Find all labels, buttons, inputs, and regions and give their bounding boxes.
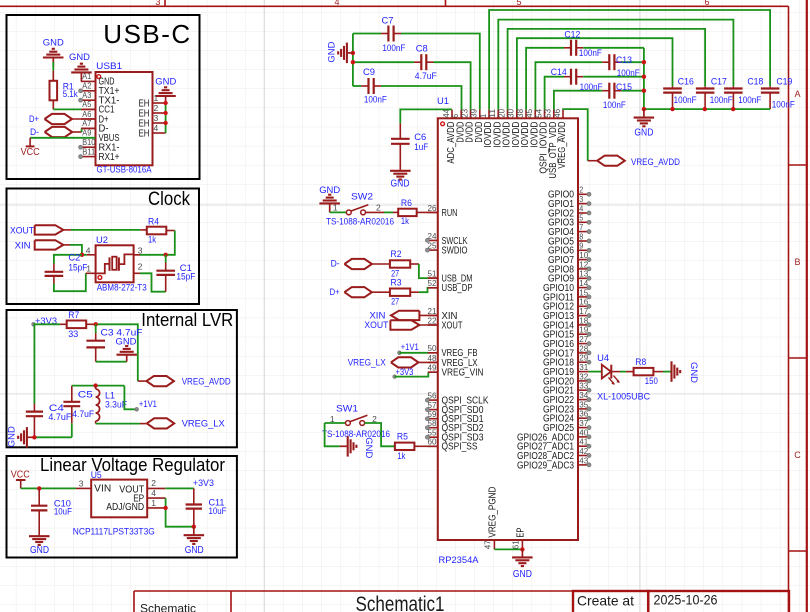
unconnected pin dot: [587, 192, 591, 196]
unconnected pin dot: [587, 463, 591, 467]
U1 pin 23 (DVDD) top: [470, 110, 472, 119]
unconnected pin dot: [587, 444, 591, 448]
wire +3V3 down to C4/GND rail: [33, 324, 35, 403]
svg-text:GND: GND: [327, 41, 338, 62]
svg-text:4.7uF: 4.7uF: [72, 409, 94, 420]
U1 pin 24 (SWCLK): [428, 239, 438, 241]
svg-text:4: 4: [154, 123, 159, 133]
USB1 pin 3 (EH): [153, 122, 166, 124]
U1 pin 37 (GPIO25): [578, 427, 589, 429]
svg-text:D+: D+: [29, 114, 39, 125]
svg-text:VREG_PGND: VREG_PGND: [488, 487, 499, 538]
unconnected pin dot: [587, 416, 591, 420]
U1 pin 12 (GPIO8): [578, 268, 589, 270]
ground GND (LVR rail): [27, 436, 35, 438]
svg-text:A: A: [794, 89, 800, 99]
power flag VCC: [29, 138, 31, 147]
svg-text:1: 1: [333, 203, 338, 213]
wire VCC to VIN: [21, 487, 76, 489]
svg-text:ABM8-272-T3: ABM8-272-T3: [97, 283, 147, 294]
unconnected pin dot: [587, 342, 591, 346]
svg-text:GND: GND: [155, 76, 176, 87]
unconnected pin dot: [587, 332, 591, 336]
U1 pin 19 (GPIO15): [578, 333, 589, 335]
svg-text:R2: R2: [391, 249, 402, 260]
svg-text:27: 27: [391, 297, 399, 308]
wire EH bus to GND: [165, 103, 167, 133]
svg-text:21: 21: [428, 306, 437, 316]
svg-text:VREG_LX: VREG_LX: [348, 357, 387, 368]
U1 pin 58 (QSPI_SD2): [428, 427, 438, 429]
U1 pin 8 (GPIO5): [578, 240, 589, 242]
regulator U5 NCP1117LPST33T3G: [91, 480, 147, 518]
U1 pin 2 (GPIO0): [578, 193, 589, 195]
U1 pin 47 (VREG_PGND) bottom: [493, 540, 495, 549]
svg-text:A5: A5: [82, 99, 91, 109]
U1 pin 50 (VREG_FB): [428, 352, 438, 354]
svg-text:51: 51: [428, 269, 437, 279]
U1 pin 11 (IOVDD) top: [497, 110, 499, 119]
unconnected pin dot: [587, 388, 591, 392]
U1 pin 32 (GPIO20): [578, 380, 589, 382]
svg-text:GND: GND: [7, 426, 18, 447]
inductor L1 3.3uF: [95, 386, 97, 389]
svg-text:1k: 1k: [148, 235, 156, 246]
svg-text:5.1k: 5.1k: [63, 89, 78, 100]
unconnected pin dot: [587, 454, 591, 458]
U1 pin 55 (QSPI_SD3): [428, 436, 438, 438]
USB1 pin A1 (GND): [81, 80, 96, 82]
capacitor C5 4.7uF: [71, 386, 73, 402]
wire R8 to GND: [653, 371, 663, 373]
wire VREG_PGND/EP to GND: [494, 548, 522, 550]
svg-text:100nF: 100nF: [364, 95, 387, 106]
unconnected pin dot: [587, 398, 591, 402]
U5 pin1 ADJ/GND stub: [147, 507, 165, 509]
USB1 pin A3 (TX1-): [81, 99, 96, 101]
U1 pin 7 (GPIO4): [578, 231, 589, 233]
svg-text:1: 1: [151, 498, 156, 508]
svg-text:EH: EH: [139, 128, 150, 139]
unconnected pin dot: [587, 248, 591, 252]
unconnected pin dot: [425, 238, 429, 242]
U1 pin 61 (EP) bottom: [521, 540, 523, 549]
svg-text:2: 2: [376, 203, 381, 213]
net flag VREG_AVDD: [138, 380, 147, 382]
U1 pin 56 (QSPI_SCLK): [428, 399, 438, 401]
svg-text:C17: C17: [711, 77, 727, 88]
svg-text:C19: C19: [776, 77, 792, 88]
svg-text:Clock: Clock: [148, 189, 190, 210]
unconnected pin dot: [587, 267, 591, 271]
wire XOUT to R4: [63, 229, 71, 231]
title block: [134, 590, 789, 592]
svg-text:100nF: 100nF: [579, 48, 602, 59]
svg-text:15pF: 15pF: [68, 262, 87, 273]
LED U4 XL-1005UBC: [602, 365, 611, 379]
svg-text:VCC: VCC: [11, 470, 30, 481]
svg-text:3: 3: [79, 479, 84, 489]
U1 pin 1 (IOVDD) top: [488, 110, 490, 119]
U1 pin 22 (XOUT): [428, 324, 438, 326]
svg-text:D-: D-: [331, 259, 340, 270]
U1 pin 46 (VREG_AVDD) top: [562, 110, 564, 119]
unconnected pin dot: [425, 417, 429, 421]
svg-text:XOUT: XOUT: [10, 225, 34, 236]
svg-text:VIN: VIN: [94, 483, 111, 494]
wire IOVDD pin to C19: [489, 10, 770, 110]
capacitor C13 100nF: [535, 62, 602, 109]
svg-text:R4: R4: [148, 216, 159, 227]
U1 pin 33 (GPIO21): [578, 389, 589, 391]
section box Internal LVR: [7, 310, 237, 447]
U1 pin 3 (GPIO1): [578, 203, 589, 205]
U1 pin 44 (ADC_AVDD) top: [451, 110, 453, 119]
USB1 pin A9 (VBUS): [81, 137, 96, 139]
U1 pin 35 (GPIO23): [578, 408, 589, 410]
ground GND (EP): [521, 549, 523, 557]
svg-text:GND: GND: [363, 437, 374, 458]
svg-text:C9: C9: [363, 67, 375, 78]
svg-text:R7: R7: [68, 310, 79, 321]
svg-text:3: 3: [155, 0, 160, 7]
unconnected pin dot: [79, 145, 83, 149]
ground GND (SW1): [340, 445, 348, 447]
wire SW1 pin2 to R5 rail: [365, 423, 395, 446]
svg-text:100nF: 100nF: [710, 95, 733, 106]
U1 pin 60 (QSPI_SS): [428, 445, 438, 447]
svg-text:1k: 1k: [397, 451, 405, 462]
unconnected pin dot: [587, 379, 591, 383]
U1 pin 17 (GPIO13): [578, 315, 589, 317]
svg-text:Schematic: Schematic: [140, 602, 196, 612]
wire D- to A7: [81, 128, 83, 132]
svg-text:4.7uF: 4.7uF: [415, 71, 437, 82]
unconnected pin dot: [587, 351, 591, 355]
svg-text:1: 1: [86, 264, 91, 274]
resistor R7: [67, 321, 87, 329]
svg-text:61: 61: [511, 540, 521, 549]
U1 pin 40 (GPIO26_ADC0): [578, 436, 589, 438]
svg-text:15pF: 15pF: [176, 272, 195, 283]
unconnected pin dot: [587, 258, 591, 262]
svg-text:1: 1: [154, 93, 159, 103]
svg-text:GND: GND: [185, 545, 204, 556]
capacitor C4 4.7uF: [33, 404, 35, 412]
svg-text:10uF: 10uF: [209, 506, 227, 517]
USB1 pin A6 (D+): [81, 118, 96, 120]
unconnected pin dot: [425, 398, 429, 402]
svg-text:D+: D+: [330, 287, 340, 298]
svg-text:ADJ/GND: ADJ/GND: [106, 502, 144, 513]
wire C12-C15 collector: [643, 48, 645, 109]
unconnected pin dot: [79, 98, 83, 102]
svg-text:Internal LVR: Internal LVR: [141, 309, 233, 330]
U1 pin 25 (SWDIO): [428, 249, 438, 251]
unconnected pin dot: [587, 407, 591, 411]
U1 pin 6 (DVDD) top: [460, 110, 462, 119]
ground GND (C6): [399, 170, 401, 171]
wire XIN to pin4: [63, 244, 70, 246]
svg-text:SW1: SW1: [336, 404, 358, 415]
svg-text:XOUT: XOUT: [442, 320, 463, 331]
wire GPIO19 to LED: [589, 371, 602, 373]
svg-text:4: 4: [86, 246, 91, 256]
capacitor C14 100nF: [545, 77, 564, 110]
svg-text:10uF: 10uF: [54, 507, 72, 518]
svg-text:1uF: 1uF: [414, 142, 428, 153]
wire SW1 pin1 to GND: [325, 423, 340, 446]
U1 pin 4 (GPIO2): [578, 212, 589, 214]
svg-text:GND: GND: [513, 569, 532, 580]
svg-text:U1: U1: [437, 96, 449, 107]
unconnected pin dot: [425, 426, 429, 430]
U1 pin 59 (QSPI_SD1): [428, 418, 438, 420]
unconnected pin dot: [587, 435, 591, 439]
svg-text:R8: R8: [635, 357, 646, 368]
svg-text:RX1+: RX1+: [99, 152, 120, 163]
svg-text:C5: C5: [78, 390, 93, 401]
unconnected pin dot: [587, 360, 591, 364]
capacitor C11 10uF: [193, 488, 195, 504]
svg-text:4.7uF: 4.7uF: [48, 412, 71, 423]
svg-text:D-: D-: [30, 127, 39, 138]
capacitor C15 100nF: [554, 91, 602, 110]
svg-text:100nF: 100nF: [382, 43, 405, 54]
svg-text:VCC: VCC: [21, 147, 40, 158]
capacitor C9 100nF: [353, 85, 361, 87]
wire +3V3 to R7: [34, 323, 61, 325]
wire EP/ADJ to C11 bottom: [166, 498, 194, 527]
U1 pin 14 (GPIO10): [578, 287, 589, 289]
svg-text:22: 22: [428, 315, 437, 325]
wire C2 bottom to pin1: [53, 276, 55, 283]
net flag VREG_AVDD (U1): [563, 109, 588, 161]
svg-text:150: 150: [645, 376, 658, 387]
U1 pin 54 (QSPI_IOVDD) top: [544, 110, 546, 119]
svg-text:C16: C16: [678, 77, 694, 88]
unconnected pin dot: [79, 155, 83, 159]
wire C3 to GND: [96, 361, 127, 363]
U1 pin 21 (XIN): [428, 314, 438, 316]
unconnected pin dot: [587, 276, 591, 280]
net label +1V1: [124, 386, 136, 410]
capacitor C19 100nF: [761, 87, 780, 89]
svg-text:SW2: SW2: [351, 191, 373, 202]
U1 pin 15 (GPIO11): [578, 296, 589, 298]
U1 pin 51 (USB_DM): [428, 277, 438, 279]
svg-text:2: 2: [138, 261, 143, 271]
svg-text:VREG_AVDD: VREG_AVDD: [557, 122, 568, 169]
USB1 pin B10 (RX1-): [81, 146, 96, 148]
svg-text:NCP1117LPST33T3G: NCP1117LPST33T3G: [73, 526, 155, 537]
U2 pin3 stub: [134, 254, 140, 256]
svg-text:4: 4: [151, 488, 156, 498]
svg-text:XL-1005UBC: XL-1005UBC: [597, 391, 650, 402]
svg-text:2: 2: [154, 103, 159, 113]
svg-text:Create at: Create at: [577, 593, 634, 609]
wire bottom rail: [34, 436, 71, 438]
svg-text:C18: C18: [747, 77, 763, 88]
svg-text:SWDIO: SWDIO: [442, 246, 468, 257]
section box Clock: [7, 189, 200, 305]
svg-text:33: 33: [68, 329, 78, 340]
resistor R4: [147, 227, 167, 235]
USB1 pin B11 (RX1+): [81, 156, 96, 158]
U1 pin 36 (GPIO24): [578, 417, 589, 419]
svg-text:U2: U2: [96, 235, 108, 246]
U1 pin 13 (GPIO9): [578, 277, 589, 279]
wire R6 to RUN: [417, 211, 438, 213]
svg-text:GPIO29_ADC3: GPIO29_ADC3: [517, 460, 574, 471]
svg-text:1k: 1k: [401, 216, 409, 227]
wire R5 to QSPI_SS: [415, 445, 429, 447]
U1 pin 38 (IOVDD) top: [525, 110, 527, 119]
U1 pin 42 (GPIO28_ADC2): [578, 455, 589, 457]
svg-text:B11: B11: [82, 146, 95, 156]
capacitor C2 15pF: [45, 271, 64, 273]
capacitor C7 100nF: [353, 33, 381, 35]
svg-text:C: C: [794, 450, 801, 460]
ground GND (R8): [671, 371, 672, 373]
svg-text:Linear Voltage Regulator: Linear Voltage Regulator: [40, 454, 225, 475]
svg-text:GT-USB-8016A: GT-USB-8016A: [97, 165, 153, 176]
capacitor C6 1uF: [400, 109, 452, 123]
U1 pin 41 (GPIO27_ADC1): [578, 445, 589, 447]
svg-text:USB-C: USB-C: [103, 19, 191, 49]
wire IOVDD pin to C16: [517, 38, 673, 109]
svg-text:C7: C7: [382, 15, 394, 26]
svg-text:GND: GND: [69, 52, 90, 63]
U1 pin 52 (USB_DP): [428, 287, 438, 289]
svg-text:EP: EP: [516, 527, 527, 537]
svg-text:50: 50: [428, 343, 437, 353]
svg-text:3: 3: [154, 113, 159, 123]
svg-text:4: 4: [334, 0, 339, 7]
sheet frame right border: [788, 6, 790, 612]
svg-text:VREG_VIN: VREG_VIN: [442, 368, 484, 379]
wire SW2 to R6: [366, 211, 385, 213]
wire GND to SW2: [330, 211, 347, 213]
svg-text:TS-1088-AR02016: TS-1088-AR02016: [322, 429, 390, 440]
svg-text:100nF: 100nF: [617, 68, 640, 79]
connector USB1 GT-USB-8016A: [96, 72, 153, 165]
wire GND rail (caps): [644, 108, 770, 110]
svg-text:+3V3: +3V3: [35, 316, 57, 327]
svg-text:QSPI_SS: QSPI_SS: [442, 442, 478, 453]
unconnected pin dot: [79, 89, 83, 93]
svg-text:GND: GND: [391, 178, 410, 189]
unconnected pin dot: [587, 286, 591, 290]
capacitor C1 15pF: [165, 255, 167, 263]
wire R7 to VREG_AVDD branch: [86, 323, 96, 325]
svg-text:100nF: 100nF: [580, 82, 603, 93]
svg-text:47: 47: [483, 540, 493, 549]
wire GND to R1: [52, 62, 54, 71]
svg-text:100nF: 100nF: [674, 95, 697, 106]
USB1 pin 4 (EH): [153, 132, 166, 134]
USB1 pin A2 (TX1+): [81, 90, 96, 92]
U1 pin 20 (IOVDD) top: [507, 110, 509, 119]
unconnected pin dot: [425, 248, 429, 252]
svg-text:VREG_AVDD: VREG_AVDD: [631, 157, 680, 168]
svg-text:5: 5: [516, 0, 521, 7]
svg-text:VREG_LX: VREG_LX: [182, 418, 226, 429]
ground GND (cap bus): [347, 52, 353, 54]
wire LED to R8: [611, 371, 620, 373]
svg-text:XOUT: XOUT: [364, 320, 388, 331]
svg-text:C8: C8: [416, 44, 428, 55]
unconnected pin dot: [425, 408, 429, 412]
U1 pin 45 (IOVDD) top: [534, 110, 536, 119]
capacitor C10 10uF: [38, 488, 40, 505]
svg-text:GND: GND: [43, 38, 64, 49]
capacitor C18 100nF: [724, 87, 743, 89]
capacitor C17 100nF: [696, 87, 715, 89]
U1 pin 28 (GPIO17): [578, 352, 589, 354]
U1 pin 43 (GPIO29_ADC3): [578, 464, 589, 466]
USB1 pin 1 (EH): [153, 102, 166, 104]
wire IOVDD pin to C17: [508, 29, 705, 110]
wire +1V1 top rail: [72, 385, 125, 387]
svg-text:GND: GND: [634, 127, 653, 138]
svg-text:+1V1: +1V1: [401, 342, 419, 353]
svg-text:XIN: XIN: [15, 240, 31, 251]
U1 pin 26 (RUN): [428, 211, 438, 213]
USB1 pin A7 (D-): [81, 127, 96, 129]
U1 pin 57 (QSPI_SD0): [428, 409, 438, 411]
svg-text:Schematic1: Schematic1: [356, 593, 445, 612]
svg-text:R5: R5: [397, 432, 408, 443]
svg-text:49: 49: [428, 363, 437, 373]
U1 pin 5 (GPIO3): [578, 221, 589, 223]
svg-text:C12: C12: [564, 30, 580, 41]
wire VBUS to VCC: [30, 137, 95, 139]
U1 pin 10 (GPIO7): [578, 259, 589, 261]
svg-text:100nF: 100nF: [603, 100, 626, 111]
U1 pin 18 (GPIO14): [578, 324, 589, 326]
resistor R6 1k: [398, 209, 417, 216]
U1 pin 31 (GPIO19): [578, 371, 589, 373]
svg-text:100nF: 100nF: [772, 99, 795, 110]
crystal U2 ABM8-272-T3: [96, 245, 134, 282]
U5 pin4 EP stub: [147, 497, 165, 499]
svg-text:R6: R6: [401, 198, 412, 209]
svg-text:R3: R3: [391, 277, 402, 288]
wire R1 to CC1: [52, 100, 54, 109]
unconnected pin dot: [425, 435, 429, 439]
resistor R8 150: [634, 368, 654, 375]
ground GND (C11): [193, 527, 195, 536]
section box Linear Voltage Regulator: [7, 456, 237, 558]
section box USB-C: [7, 15, 200, 179]
U1 pin 34 (GPIO22): [578, 399, 589, 401]
MCU U1 RP2354A: [438, 118, 578, 540]
U1 pin 48 (VREG_LX): [428, 361, 438, 363]
svg-text:6: 6: [704, 0, 709, 7]
unconnected pin dot: [587, 230, 591, 234]
svg-text:USB1: USB1: [96, 61, 122, 72]
wire pin2 to C1 bottom: [134, 272, 140, 274]
sheet frame top ruler: [0, 5, 789, 7]
unconnected pin dot: [587, 295, 591, 299]
U1 pin 39 (DVDD) top: [479, 110, 481, 119]
U1 pin 29 (GPIO18): [578, 361, 589, 363]
unconnected pin dot: [587, 239, 591, 243]
wire R4 to C1/pin3: [166, 230, 175, 232]
capacitor C16 100nF: [663, 87, 682, 89]
svg-text:GND: GND: [30, 545, 49, 556]
